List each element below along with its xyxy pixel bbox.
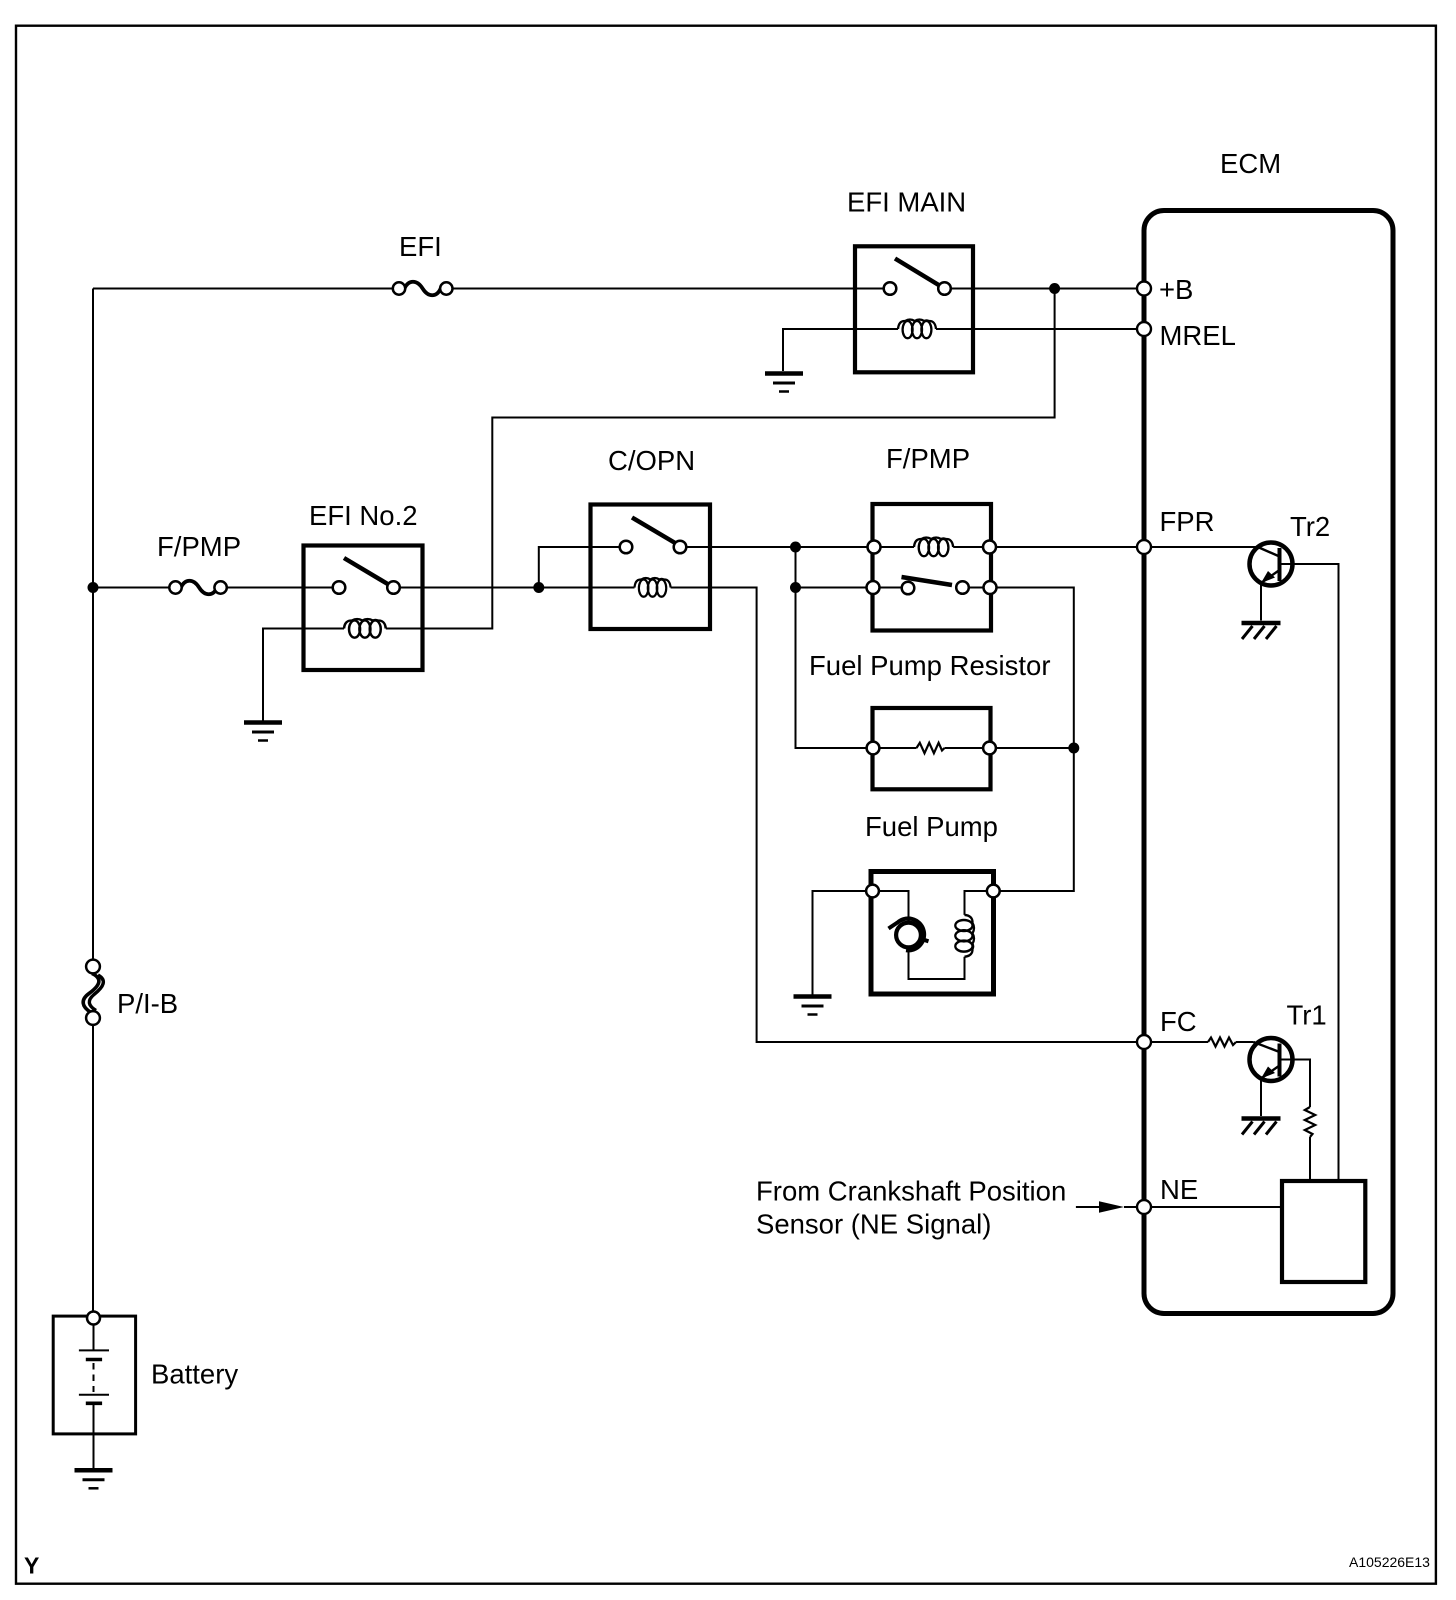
fuel pump terminals [866, 885, 879, 898]
terminal NE [1137, 1200, 1151, 1214]
terminal FC [1137, 1035, 1151, 1049]
svg-text:A105226E13: A105226E13 [1349, 1554, 1430, 1570]
relay C/OPN coil [635, 578, 671, 597]
wire Tr2 base lead [1151, 546, 1258, 548]
fuel pump resistor element [917, 743, 945, 753]
wire fuel pump internal coil top stub [965, 891, 994, 915]
relay EFI No.2 box [304, 546, 423, 671]
junction dot F/PMP coil feed [790, 542, 801, 553]
junction dot +B line [1049, 283, 1060, 294]
svg-text:C/OPN: C/OPN [608, 445, 695, 476]
resistor at Tr1 base [1208, 1038, 1236, 1047]
wire battery internal top [93, 1325, 95, 1350]
wire EFI MAIN coil to ground [783, 329, 855, 371]
fuel pump resistor box [873, 708, 991, 789]
svg-text:F/PMP: F/PMP [886, 443, 970, 474]
relay C/OPN switch contacts [620, 541, 633, 554]
ground below Tr2 [1242, 623, 1281, 639]
relay F/PMP box [873, 504, 992, 631]
fuel pump motor rotation arrow [897, 918, 924, 950]
ground below Tr1 [1242, 1119, 1281, 1135]
fuel pump internal coil [955, 915, 974, 957]
wire EFI MAIN coil to MREL terminal [973, 328, 1141, 330]
relay F/PMP coil terminals [868, 541, 881, 554]
svg-text:FC: FC [1160, 1006, 1197, 1037]
relay EFI MAIN coil [855, 328, 898, 330]
wire Tr1 emitter to ground [1260, 1078, 1262, 1116]
relay EFI No.2 coil [304, 628, 345, 630]
relay C/OPN switch blade [632, 518, 676, 544]
wire fuel pump left terminal to ground [813, 891, 873, 995]
svg-text:+B: +B [1159, 274, 1193, 305]
svg-text:ECM: ECM [1220, 148, 1281, 179]
wire to F/PMP switch [796, 587, 909, 589]
wire F/PMP coil to FPR terminal [953, 546, 1141, 548]
battery box [53, 1316, 135, 1434]
svg-text:FPR: FPR [1160, 506, 1215, 537]
wire EFI No.2 coil to ground [263, 629, 304, 721]
fuel pump motor [896, 923, 921, 948]
wire resistor internal left stub [873, 747, 917, 749]
wire resistor output to junction [990, 747, 1074, 749]
transistor Tr2 [1250, 543, 1294, 586]
wire F/PMP switch output down to fuel pump [990, 588, 1074, 892]
wire +B junction to EFI No.2 relay coil jog [423, 289, 1055, 629]
terminal FPR [1137, 540, 1151, 554]
wire Tr1 base resistor to transistor [1236, 1041, 1254, 1043]
wire fuel pump internal bottom link [909, 949, 965, 980]
terminal MREL [1137, 322, 1151, 336]
wire battery plate to ground [93, 1405, 95, 1469]
ground below EFI MAIN coil [765, 374, 803, 392]
fuel pump box [871, 872, 994, 995]
wire NE arrow tip to terminal [1124, 1206, 1138, 1208]
wire C/OPN switch to F/PMP relay coil [680, 546, 914, 548]
svg-text:Tr2: Tr2 [1290, 511, 1330, 542]
resistor at Tr1 collector (vertical) [1305, 1107, 1315, 1137]
svg-text:EFI: EFI [399, 231, 442, 262]
wire EFI feed: battery line to EFI fuse [93, 288, 399, 290]
wire EFI MAIN switch to +B terminal [945, 288, 1142, 290]
fuel pump resistor terminals [867, 742, 880, 755]
wire main feed battery junction to F/PMP fuse [93, 587, 176, 589]
svg-text:NE: NE [1160, 1174, 1198, 1205]
wire Tr2 collector to NE box [1282, 564, 1339, 1181]
fuse F/PMP [181, 581, 217, 595]
relay F/PMP coil [914, 538, 953, 557]
ECM box [1144, 211, 1393, 1314]
wire C/OPN coil to FC terminal [671, 588, 1141, 1043]
svg-text:Tr1: Tr1 [1287, 1000, 1327, 1031]
relay F/PMP switch contacts [867, 581, 880, 594]
wire left battery vertical lower [92, 1018, 94, 1317]
wire NE arrow tail [1076, 1206, 1099, 1208]
junction dot resistor output [1068, 743, 1079, 754]
wire Tr1 collector resistor to NE box [1309, 1137, 1311, 1181]
wire EFI fuse to EFI MAIN switch [446, 288, 890, 290]
relay EFI No.2 switch blade [344, 558, 389, 585]
wire Tr1 collector upper [1282, 1060, 1311, 1108]
junction dot F/PMP switch feed [790, 582, 801, 593]
wire NE terminal to NE box [1151, 1206, 1282, 1208]
wire F/PMP switch inner to edge [963, 587, 991, 589]
fuse EFI [405, 282, 441, 296]
ground below fuel pump [794, 997, 832, 1015]
wire left battery vertical upper [92, 289, 94, 967]
wire junction riser to fuel pump resistor [796, 547, 874, 748]
fusible link P/I-B [83, 974, 99, 1013]
wire C/OPN switch branch riser [539, 547, 626, 588]
junction dot C/OPN branch [533, 582, 544, 593]
ground below EFI No.2 coil [244, 723, 282, 741]
svg-text:Y: Y [24, 1553, 39, 1579]
relay F/PMP switch blade [902, 577, 953, 585]
wire FC terminal to Tr1 base resistor [1151, 1041, 1208, 1043]
wire EFI No.2 switch to C/OPN coil [394, 587, 635, 589]
battery cell plates [79, 1349, 109, 1351]
wire fuel pump internal motor branch [873, 891, 909, 922]
wire Tr2 emitter to ground [1260, 583, 1262, 621]
relay EFI No.2 switch contacts [333, 581, 346, 594]
relay EFI MAIN box [855, 246, 973, 372]
svg-text:MREL: MREL [1160, 320, 1236, 351]
wire F/PMP fuse to EFI No.2 switch [221, 587, 339, 589]
junction dot battery feed [88, 582, 99, 593]
svg-text:Sensor (NE Signal): Sensor (NE Signal) [756, 1209, 991, 1240]
transistor Tr1 [1250, 1038, 1294, 1081]
battery terminal circle [87, 1312, 100, 1325]
ground below battery [75, 1470, 113, 1488]
terminal +B [1137, 282, 1151, 296]
relay EFI MAIN switch contacts [884, 282, 897, 295]
svg-text:Fuel Pump Resistor: Fuel Pump Resistor [809, 650, 1050, 681]
relay C/OPN box [591, 505, 711, 630]
svg-text:P/I-B: P/I-B [117, 988, 178, 1019]
svg-text:From Crankshaft Position: From Crankshaft Position [756, 1176, 1066, 1207]
svg-text:EFI MAIN: EFI MAIN [847, 187, 966, 218]
svg-text:EFI No.2: EFI No.2 [309, 500, 418, 531]
svg-text:Fuel Pump: Fuel Pump [865, 811, 998, 842]
svg-text:Battery: Battery [151, 1359, 238, 1390]
NE signal block box [1282, 1181, 1365, 1282]
NE signal arrow [1099, 1201, 1124, 1213]
svg-text:F/PMP: F/PMP [157, 531, 241, 562]
relay EFI MAIN switch blade [895, 259, 940, 286]
wire resistor internal right stub [945, 747, 990, 749]
